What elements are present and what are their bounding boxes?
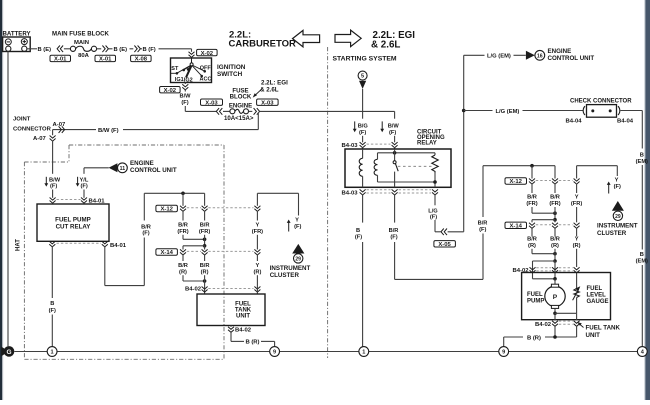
svg-text:(F): (F): [479, 227, 486, 233]
label Y (F) left cluster: [287, 218, 302, 232]
wire split right 1: [532, 218, 557, 222]
connector chevron B4-03 top pin1: [360, 142, 366, 148]
wire: [204, 211, 206, 246]
connector link X-14 left: [187, 250, 254, 252]
connector link B4-03 bottom: [367, 190, 432, 193]
connector chevron B4-03 bottom pin3: [432, 189, 438, 195]
svg-text:ST: ST: [171, 66, 179, 72]
label Y (F) right cluster: [607, 178, 621, 194]
label MAIN FUSE BLOCK: [52, 30, 109, 37]
svg-text:Y: Y: [615, 178, 619, 184]
svg-text:1: 1: [51, 350, 54, 356]
connector box X-01 right: [95, 55, 116, 62]
label B (EM) upper: [636, 152, 648, 165]
connector box X-12 left: [156, 205, 178, 212]
connector link B4-02 right: [536, 268, 572, 271]
connector link B4-03 top: [367, 143, 391, 145]
svg-text:5: 5: [361, 74, 364, 80]
check connector: [583, 105, 620, 118]
wire B (F) to ground: [51, 247, 53, 347]
label STARTING SYSTEM: [333, 55, 397, 62]
label B/R (FR) L1: [177, 222, 188, 235]
svg-text:& 2.6L: & 2.6L: [371, 40, 400, 51]
block arrow pointing left (carburetor section): [293, 30, 320, 47]
wire L/G riser: [464, 55, 485, 232]
connector chevron A-07 vertical: [50, 136, 56, 142]
relay switch: [393, 149, 398, 187]
svg-text:FUEL: FUEL: [527, 292, 543, 298]
svg-text:ENGINE: ENGINE: [548, 48, 572, 55]
wire: [108, 48, 112, 50]
wire: [182, 193, 184, 206]
label FUEL PUMP CUT RELAY: [55, 217, 91, 231]
label IG2: [184, 77, 193, 83]
svg-text:GAUGE: GAUGE: [587, 299, 609, 305]
fuel pump cut relay box: [37, 204, 109, 241]
label 80A: [78, 53, 90, 59]
svg-text:HAT: HAT: [16, 239, 22, 251]
wire tank unit output: [230, 326, 232, 327]
wire B/W down to fuse block: [185, 90, 216, 112]
wire split right 2 bypass: [533, 259, 557, 279]
label Y (R) right: [573, 236, 581, 249]
connector chevron X-01 right: [102, 46, 108, 53]
svg-text:B/W: B/W: [388, 124, 400, 130]
connector link X-12 right: [536, 180, 573, 182]
label MAIN: [74, 40, 89, 46]
wire: [83, 190, 85, 198]
HAT region boundary dash-dot: [24, 145, 224, 359]
arrow pointer to tank box: [577, 322, 583, 328]
svg-text:JOINT: JOINT: [13, 117, 31, 123]
svg-text:X-02: X-02: [201, 51, 214, 57]
wire right top bus: [483, 165, 555, 167]
label FUSE BLOCK: [230, 87, 252, 100]
ground node 9 left: [270, 347, 280, 357]
label B/R (R) L2: [200, 263, 210, 276]
wire: [140, 48, 142, 50]
wire: [448, 231, 464, 233]
connector link X-12 left: [187, 207, 254, 209]
svg-text:(FR): (FR): [177, 229, 188, 235]
label B/W (F) long wire: [96, 126, 123, 134]
label B/R (F) left: [141, 224, 151, 236]
label BATTERY: [3, 30, 31, 37]
connector chevron X-14 R pin1: [529, 223, 535, 229]
wire to ignition switch: [159, 49, 192, 52]
wire: [531, 184, 533, 214]
label FUEL TANK UNIT right: [586, 325, 621, 340]
svg-text:B: B: [640, 152, 644, 158]
label FUEL PUMP: [527, 292, 544, 305]
svg-text:Y: Y: [256, 263, 260, 269]
connector chevron B4-02 L pin1: [202, 287, 208, 293]
svg-text:IG2: IG2: [184, 77, 193, 83]
label CIRCUIT OPENING RELAY: [417, 130, 445, 147]
label B/R (FR) R2: [549, 195, 560, 208]
svg-text:& 2.6L: & 2.6L: [260, 86, 279, 93]
fuel pump motor: [545, 284, 565, 308]
svg-text:B/R: B/R: [527, 195, 537, 201]
svg-text:B4-03: B4-03: [341, 143, 358, 149]
label B/W (F) ignition: [179, 94, 191, 107]
svg-text:CUT RELAY: CUT RELAY: [56, 224, 92, 231]
wire: [514, 54, 526, 56]
junction dot relay bottom: [433, 180, 437, 184]
label ENGINE CONTROL UNIT right: [548, 48, 595, 62]
connector chevron B4-03 bottom pin2: [392, 189, 398, 195]
svg-text:SWITCH: SWITCH: [217, 71, 243, 78]
svg-text:10A<15A>: 10A<15A>: [224, 115, 254, 122]
label Y (FR) left: [252, 222, 263, 235]
wire: [249, 110, 253, 112]
label B4-04 left: [566, 118, 583, 124]
wire ignition output: [184, 83, 186, 85]
svg-text:PUMP: PUMP: [527, 298, 544, 304]
svg-text:Y: Y: [295, 218, 299, 224]
connector box X-12 right: [505, 178, 527, 185]
svg-text:B (F): B (F): [143, 47, 156, 53]
svg-text:P: P: [553, 294, 558, 301]
svg-text:B (R): B (R): [245, 340, 259, 346]
svg-text:80A: 80A: [78, 53, 90, 59]
connector chevron B4-01 bottom pin1: [49, 241, 55, 247]
connector chevron X-14 L pin1: [180, 249, 186, 255]
svg-text:CLUSTER: CLUSTER: [270, 272, 300, 279]
connector link B4-01 top: [57, 199, 81, 201]
svg-text:LEVEL: LEVEL: [587, 293, 607, 299]
svg-text:(F): (F): [142, 230, 149, 236]
label Y/L (F): [76, 177, 89, 190]
svg-text:B4-02: B4-02: [185, 286, 202, 292]
connector box X-05: [434, 241, 456, 248]
label 2.2L: CARBURETOR: [229, 30, 297, 50]
wire: [394, 136, 396, 143]
bottom ground rail: [14, 351, 637, 353]
ignition switch IGN SW: [171, 58, 212, 83]
svg-text:TANK: TANK: [235, 307, 252, 313]
label B (EM) lower: [636, 252, 648, 264]
wire L/G (F) relay output: [435, 194, 441, 231]
connector box X-14 left: [156, 249, 178, 256]
label B/R (F) relay: [389, 228, 399, 241]
label L/G (F): [428, 209, 438, 221]
wire check connector to B(EM): [621, 111, 643, 149]
wire split left: [183, 244, 206, 250]
wire: [130, 48, 134, 50]
label A-07 bottom: [33, 136, 46, 142]
right page edge band: [644, 0, 650, 400]
wire: [204, 254, 206, 294]
svg-text:(FR): (FR): [526, 201, 537, 207]
svg-text:B: B: [640, 252, 644, 258]
label JOINT CONNECTOR: [13, 117, 52, 133]
svg-text:B/R: B/R: [200, 263, 210, 269]
svg-text:(F): (F): [390, 234, 397, 240]
svg-text:(R): (R): [551, 243, 559, 249]
label B (E) 1: [38, 47, 52, 53]
wire fuse output to EGI relay: [259, 110, 394, 112]
wire: [553, 261, 557, 284]
wire: [182, 211, 184, 240]
connector box X-02 top: [197, 49, 218, 56]
svg-text:B: B: [50, 301, 54, 307]
label INSTRUMENT CLUSTER left: [270, 265, 311, 279]
wire cut relay output jog: [105, 193, 145, 285]
svg-text:B/R: B/R: [550, 195, 560, 201]
label B (R) right: [523, 334, 545, 342]
label IGNITION SWITCH: [217, 64, 246, 78]
wire: [64, 48, 71, 50]
svg-text:X-02: X-02: [164, 88, 177, 94]
label B/R (R) R2: [550, 236, 560, 249]
fuel tank unit box right: [522, 273, 611, 320]
connector chevron X-12 R pin3: [574, 179, 580, 185]
svg-text:B4-03: B4-03: [341, 191, 358, 197]
svg-text:X-08: X-08: [135, 57, 148, 63]
label ENGINE fuse: [229, 103, 252, 110]
svg-text:(FR): (FR): [571, 201, 582, 207]
connector link B4-02 left: [208, 288, 253, 290]
svg-text:CONTROL UNIT: CONTROL UNIT: [130, 167, 177, 174]
svg-text:X-01: X-01: [99, 57, 112, 63]
svg-text:B4-04: B4-04: [617, 118, 634, 124]
connector chevron X-02 top: [189, 52, 195, 58]
wire: [554, 228, 556, 261]
engine control unit arrow 11: [109, 163, 128, 173]
svg-text:B/R: B/R: [478, 221, 488, 227]
label 2.2L: EGI & 2.6L (right section): [371, 30, 415, 51]
svg-text:(EM): (EM): [636, 159, 648, 165]
wire starting system feed: [358, 71, 367, 119]
connector chevron X-03 left: [216, 108, 222, 115]
wire: [223, 110, 230, 112]
label B4-02 left bottom: [235, 328, 252, 334]
wire: [576, 184, 578, 287]
svg-text:INSTRUMENT: INSTRUMENT: [270, 265, 311, 272]
connector chevron X-12 R pin2: [552, 179, 558, 185]
wire: [363, 147, 395, 149]
relay internal bottom bus: [378, 181, 436, 183]
wire battery to B(E): [27, 48, 37, 50]
label B (R) left: [245, 340, 259, 346]
instrument cluster arrow 29 right: [612, 201, 624, 221]
svg-text:RELAY: RELAY: [417, 141, 437, 147]
connector chevron X-01 left: [57, 46, 63, 53]
label B/W (F) relay input: [44, 177, 60, 190]
svg-text:STARTING SYSTEM: STARTING SYSTEM: [333, 55, 397, 62]
svg-text:IG1: IG1: [175, 77, 184, 83]
label B4-01 top: [89, 198, 106, 204]
ground node 1 left: [47, 347, 57, 357]
svg-text:MAIN FUSE BLOCK: MAIN FUSE BLOCK: [52, 30, 109, 37]
svg-text:(F): (F): [355, 234, 362, 240]
connector chevron X-12 R pin1: [529, 179, 535, 185]
wire: [641, 265, 643, 347]
connector chevron X-08: [134, 46, 140, 53]
svg-text:(FR): (FR): [549, 201, 560, 207]
svg-text:UNIT: UNIT: [236, 314, 250, 320]
label B4-02 right top: [512, 268, 529, 274]
svg-text:X-12: X-12: [509, 179, 522, 185]
connector chevron B4-02 R pin2: [552, 267, 558, 273]
svg-text:X-03: X-03: [205, 100, 218, 106]
svg-text:Y: Y: [256, 222, 260, 228]
svg-text:B/R: B/R: [178, 263, 188, 269]
connector box X-03 right: [257, 99, 279, 106]
svg-text:11: 11: [120, 166, 126, 172]
ground node 9 right: [499, 347, 509, 357]
wire: [83, 203, 85, 205]
wire: [523, 110, 584, 112]
svg-text:(F): (F): [50, 184, 57, 190]
svg-text:BATTERY: BATTERY: [3, 30, 31, 37]
wire B (F) relay to ground: [362, 194, 364, 346]
svg-text:B/W: B/W: [179, 94, 191, 100]
svg-text:B/R: B/R: [200, 222, 210, 228]
svg-text:B4-02: B4-02: [512, 268, 529, 274]
connector chevron X-02 bottom: [182, 84, 188, 90]
svg-text:B/W (F): B/W (F): [98, 128, 119, 134]
svg-text:29: 29: [295, 256, 301, 262]
connector chevron X-14 R pin3: [574, 223, 580, 229]
label B4-04 right: [617, 118, 634, 124]
block arrow pointing right (EGI section): [335, 30, 361, 46]
svg-text:X-03: X-03: [261, 100, 274, 106]
wire merge right 1: [532, 211, 557, 215]
svg-text:ENGINE: ENGINE: [130, 160, 154, 167]
wire: [52, 141, 54, 174]
svg-text:ACC: ACC: [200, 77, 212, 83]
label HAT: [16, 236, 24, 254]
ground node 1 right: [359, 347, 369, 357]
fuel level gauge: [573, 286, 581, 313]
svg-text:CARBURETOR: CARBURETOR: [229, 39, 297, 50]
svg-text:(F): (F): [181, 100, 188, 106]
svg-text:(EM): (EM): [636, 259, 648, 265]
fuse ENGINE 10A: [230, 109, 249, 114]
connector chevron X-14 R pin2: [552, 223, 558, 229]
connector chevron X-12 L pin2: [202, 206, 208, 212]
connector chevron X-14 L pin2: [202, 249, 208, 255]
label B4-01 bottom: [110, 243, 127, 249]
connector chevron X-14 L pin3: [254, 249, 260, 255]
arrow pointer to X-03: [253, 88, 263, 97]
svg-text:B/R: B/R: [527, 236, 537, 242]
wire Y gauge feed: [577, 166, 618, 179]
label IG1: [175, 77, 184, 83]
svg-text:B4-02: B4-02: [235, 328, 252, 334]
label B/R (FR) R1: [526, 195, 537, 208]
svg-text:(R): (R): [528, 243, 536, 249]
svg-text:CLUSTER: CLUSTER: [597, 230, 627, 237]
connector chevron A-07 horizontal: [59, 126, 65, 133]
label 2.2L: EGI & 2.6L small: [260, 80, 288, 94]
svg-text:G: G: [6, 349, 11, 356]
connector box X-08: [131, 55, 152, 62]
svg-text:X-12: X-12: [160, 207, 173, 213]
wire Y/L from ECU: [84, 168, 109, 174]
relay coil L2: [374, 153, 377, 182]
svg-text:L/G (EM): L/G (EM): [496, 109, 520, 115]
wire B/R (F) relay switch output: [395, 166, 483, 280]
svg-text:IGNITION: IGNITION: [217, 64, 246, 71]
svg-text:MAIN: MAIN: [74, 40, 89, 46]
connector chevron X-05: [441, 229, 447, 236]
connector chevron B4-02 R pin1: [530, 267, 536, 273]
svg-text:(R): (R): [253, 269, 261, 275]
svg-text:FUEL: FUEL: [235, 301, 251, 307]
connector chevron B4-02 left bottom: [228, 327, 234, 333]
wire: [97, 48, 102, 50]
wire Y to left instrument cluster: [257, 193, 298, 215]
wire joint connector down: [52, 130, 54, 136]
label 10A<15A>: [224, 115, 254, 122]
wire merge right 2: [532, 252, 557, 256]
label B (F) relay: [355, 228, 362, 241]
svg-text:(F): (F): [359, 130, 366, 136]
connector chevron X-03 right: [254, 108, 260, 115]
svg-text:(F): (F): [294, 224, 301, 230]
svg-text:(F): (F): [389, 130, 396, 136]
svg-text:29: 29: [615, 214, 621, 220]
label B4-03 top: [341, 143, 358, 149]
junction dot relay top: [393, 151, 397, 155]
svg-text:A-07: A-07: [33, 136, 46, 142]
svg-text:CONTROL UNIT: CONTROL UNIT: [548, 55, 595, 62]
connector chevron B4-03 top pin2: [392, 142, 398, 148]
connector chevron B4-02 bottom pin2: [574, 321, 580, 327]
label CHECK CONNECTOR: [570, 99, 632, 105]
wire merge left 2: [183, 279, 206, 283]
label B/R (F) riser: [478, 221, 488, 233]
svg-text:INSTRUMENT: INSTRUMENT: [597, 223, 638, 230]
label B/R (R) R1: [527, 236, 537, 249]
wire battery ground drop: [7, 51, 9, 346]
label FUEL TANK UNIT left: [235, 301, 252, 319]
center section divider dash-dot line: [327, 47, 329, 358]
svg-text:(F): (F): [430, 215, 437, 221]
label B/R (R) L1: [178, 263, 188, 276]
wire: [362, 136, 364, 143]
wire: [52, 203, 54, 205]
relay internal top bus: [378, 152, 436, 154]
label B4-03 bottom: [341, 191, 358, 197]
label ENGINE CONTROL UNIT left: [130, 160, 177, 174]
svg-text:CHECK CONNECTOR: CHECK CONNECTOR: [570, 99, 632, 105]
label A-07 top: [53, 122, 66, 128]
svg-text:L/G (EM): L/G (EM): [487, 54, 511, 60]
ground node 4: [637, 347, 647, 357]
relay switch linkage dashed: [398, 165, 432, 167]
svg-text:UNIT: UNIT: [586, 332, 601, 339]
label INSTRUMENT CLUSTER right: [597, 223, 638, 237]
svg-text:B4-01: B4-01: [110, 243, 127, 249]
svg-text:BLOCK: BLOCK: [230, 94, 252, 101]
wire: [532, 166, 555, 179]
svg-text:X-01: X-01: [54, 57, 67, 63]
svg-text:B (E): B (E): [38, 47, 52, 53]
connector chevron B4-02 bottom pin1: [552, 321, 558, 327]
connector chevron B4-01 pin2: [81, 198, 87, 204]
svg-text:X-05: X-05: [438, 242, 451, 248]
svg-text:Y: Y: [575, 195, 579, 201]
svg-text:OFF: OFF: [200, 66, 212, 72]
label B/G (F): [353, 121, 369, 135]
svg-text:B: B: [356, 228, 360, 234]
wire B (R) to ground 9 left: [231, 332, 275, 347]
svg-text:1: 1: [362, 350, 365, 356]
